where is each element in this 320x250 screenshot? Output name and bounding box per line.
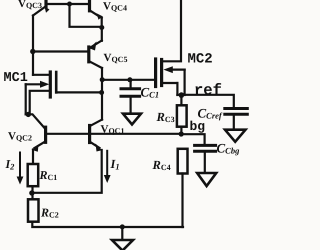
wire ref node column (MC2 source/bulk) [176, 83, 178, 95]
node C dot QC5 base tap [30, 49, 35, 54]
transistor VQC2 [32, 127, 46, 152]
node A dot top rail [67, 2, 72, 7]
svg-text:I2: I2 [5, 157, 16, 172]
node J dot ref node [179, 92, 185, 98]
svg-text:RC3: RC3 [156, 110, 175, 124]
svg-text:MC2: MC2 [188, 52, 213, 68]
svg-text:VQC4: VQC4 [103, 1, 127, 13]
svg-text:ref: ref [194, 82, 222, 100]
wire ref output [177, 95, 233, 108]
svg-text:VQC1: VQC1 [101, 124, 125, 136]
svg-text:bg: bg [190, 119, 206, 134]
node D dot MC2 gate wire [100, 77, 105, 82]
wire top rail [46, 3, 90, 5]
node G dot RC1 RC2 junction [29, 190, 34, 195]
svg-text:VQC5: VQC5 [104, 52, 128, 64]
wire base loop of QC3/QC4 down-right [70, 4, 102, 27]
resistor RC4 [178, 149, 188, 174]
wire RC4 bottom to rail [181, 174, 183, 228]
wire MC1 source to QC2 collector [26, 114, 45, 128]
wire shared base QC2 QC1 to bg node [47, 133, 181, 135]
resistor RC2 [28, 199, 39, 221]
capacitor CCref [225, 109, 248, 130]
svg-text:VQC3: VQC3 [18, 0, 42, 10]
svg-text:CCbg: CCbg [217, 141, 241, 156]
node K dot bg node [179, 131, 184, 136]
transistor VQC5 [33, 41, 102, 69]
wire RC3 to bg node [180, 127, 182, 134]
current arrow I1 [104, 151, 111, 183]
capacitor CC1 [121, 80, 140, 113]
wire emitter chain QC4 to QC5 [101, 27, 103, 41]
node F dot MC1 source QC2 collector [26, 112, 31, 117]
svg-text:MC1: MC1 [4, 71, 28, 86]
svg-text:RC1: RC1 [39, 168, 58, 182]
capacitor CCbg [195, 145, 216, 172]
resistor RC1 [28, 164, 39, 186]
transistor VQC4 [90, 0, 103, 27]
node E dot MC1 gate tap [99, 90, 104, 95]
MOSFET MC2 [156, 0, 185, 87]
wire QC1 emitter down and left to RC1/RC2 node [32, 150, 102, 193]
svg-text:RC2: RC2 [40, 206, 59, 220]
wire QC3 emitter down left column [32, 16, 34, 75]
transistor VQC3 [33, 0, 50, 16]
node H dot ground rail [120, 224, 125, 229]
svg-text:RC4: RC4 [152, 158, 171, 172]
node B dot QC4 emitter junction [99, 25, 104, 30]
node I dot CC1 tap [127, 77, 132, 82]
ground bottom center [112, 227, 133, 250]
transistor VQC1 [90, 120, 102, 152]
wire QC5 collector column [101, 68, 103, 120]
ground below CC1 [123, 114, 141, 125]
resistor RC3 [177, 105, 187, 126]
wire QC2 emitter down to RC1 [32, 150, 34, 165]
current arrow I2 [17, 153, 24, 185]
wire RC1 bottom [31, 186, 33, 199]
wire RC2 bottom to ground rail [32, 222, 183, 227]
wire bg to CCbg [181, 134, 204, 143]
svg-text:VQC2: VQC2 [8, 131, 32, 143]
wire MC2 gate lead [102, 79, 156, 81]
MOSFET MC1 [26, 72, 102, 114]
ground below CCref [225, 130, 246, 142]
svg-text:I1: I1 [110, 157, 120, 172]
wire ref node to RC3 [180, 95, 182, 105]
ground below CCbg [197, 173, 216, 186]
